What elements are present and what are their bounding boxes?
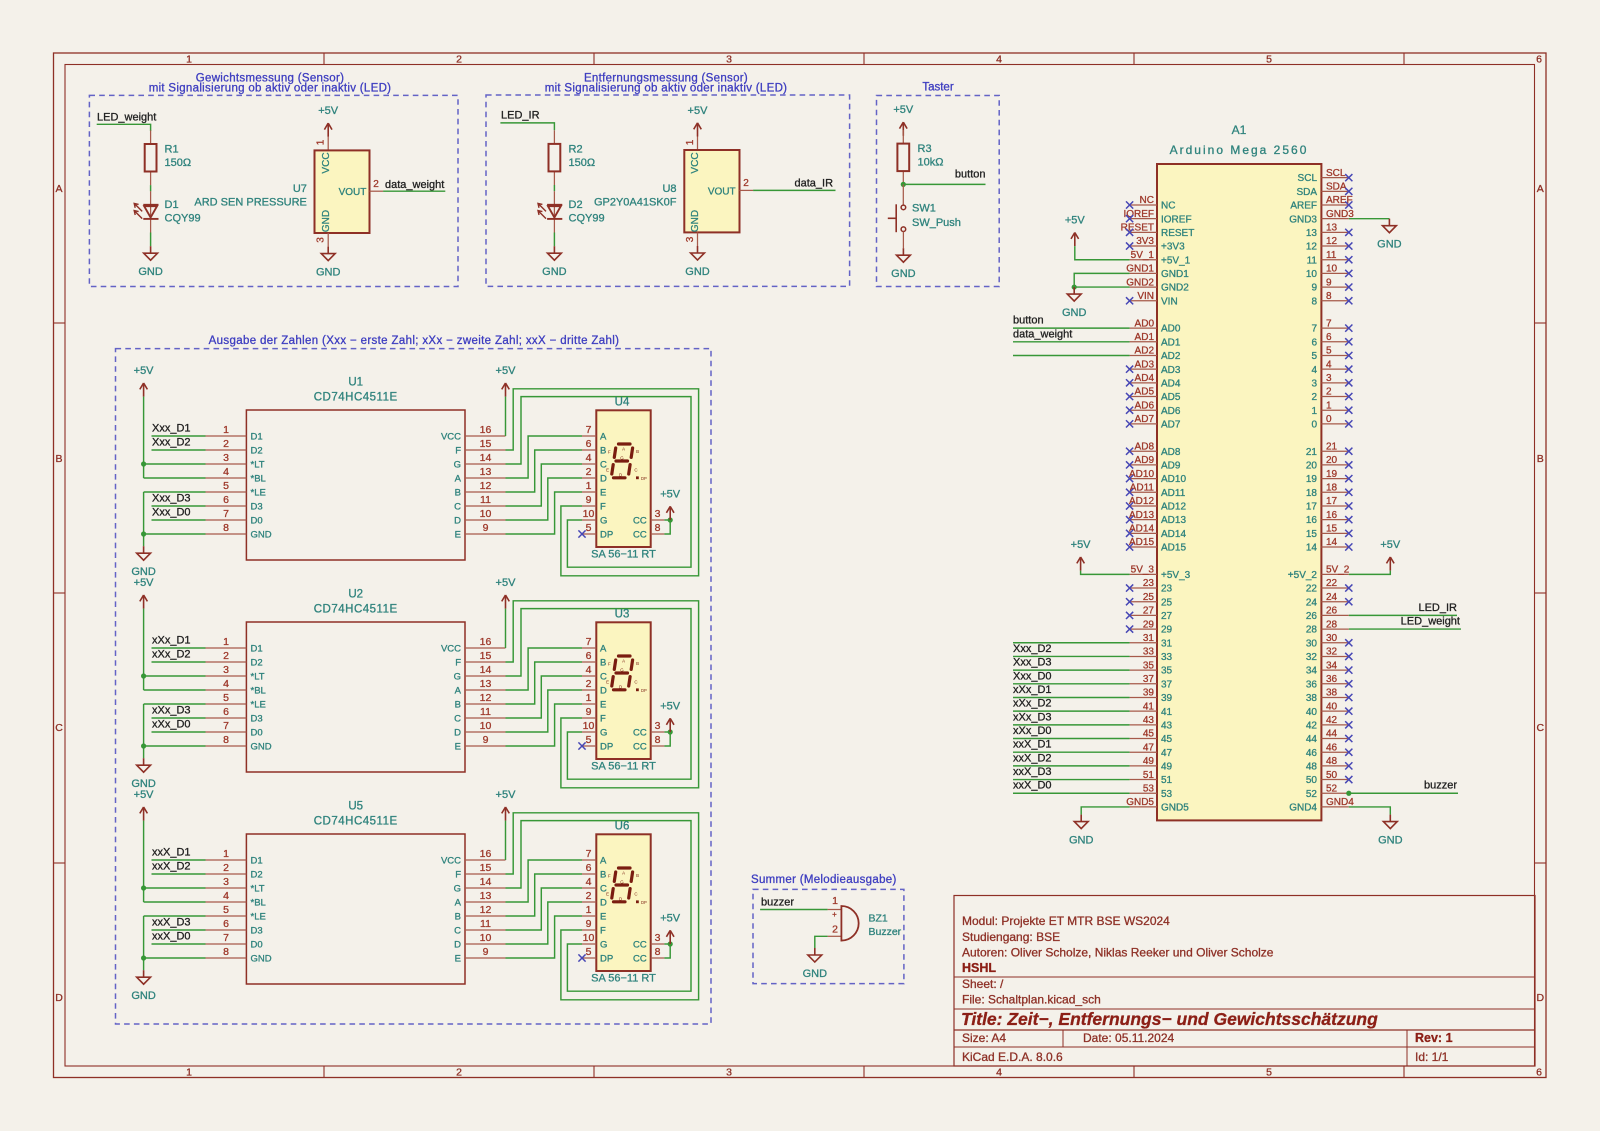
svg-text:G: G (454, 672, 461, 683)
junction (141, 885, 146, 890)
svg-text:19: 19 (1306, 474, 1318, 485)
power +5V (U5 VCC) (496, 789, 517, 821)
svg-text:8: 8 (1326, 291, 1332, 302)
svg-text:CC: CC (633, 728, 647, 739)
wire GND1/GND2 to ground (1074, 273, 1129, 287)
svg-text:C: C (55, 722, 63, 734)
svg-text:U7: U7 (293, 183, 307, 195)
svg-text:5: 5 (223, 904, 229, 916)
svg-text:1: 1 (1326, 400, 1332, 411)
svg-text:xXx_D1: xXx_D1 (1013, 684, 1052, 696)
svg-text:D: D (1537, 992, 1545, 1004)
svg-text:LED_weight: LED_weight (97, 112, 156, 124)
sensor U7 ARD SEN PRESSURE (194, 137, 383, 247)
power +5V (U2 left) (134, 577, 155, 609)
svg-text:DP: DP (641, 688, 647, 693)
junction (141, 955, 146, 960)
wire GND column U5 pins 5,8 (144, 915, 206, 917)
svg-text:data_IR: data_IR (795, 178, 834, 190)
svg-text:5V_3: 5V_3 (1131, 565, 1155, 576)
wire GND column U2 pins 5,8 (144, 703, 206, 705)
power +5V (R3 top) (893, 104, 914, 136)
svg-text:5: 5 (1311, 351, 1317, 362)
svg-text:1: 1 (186, 1067, 192, 1079)
svg-text:6: 6 (223, 494, 229, 506)
svg-text:G: G (620, 880, 624, 885)
svg-text:VCC: VCC (690, 152, 701, 173)
wire +5V to A1 5V_2 (1349, 571, 1391, 575)
wire button to AD0 (1013, 327, 1130, 329)
wire xxX_D1 to A1 (1013, 751, 1130, 753)
svg-text:Studiengang: BSE: Studiengang: BSE (962, 930, 1060, 944)
svg-text:AD9: AD9 (1135, 455, 1155, 466)
ground (box2 LED) (542, 246, 567, 278)
wire GND4 to ground (1349, 807, 1391, 815)
svg-text:GND: GND (316, 267, 341, 279)
svg-text:SCL: SCL (1298, 173, 1318, 184)
no-connect x (U3.5 DP) (578, 742, 585, 749)
svg-text:15: 15 (480, 438, 492, 450)
junction (R3 / button / SW1) (901, 182, 906, 187)
svg-text:+5V: +5V (318, 105, 339, 117)
svg-text:45: 45 (1143, 729, 1155, 740)
svg-text:10: 10 (480, 720, 492, 732)
svg-text:B: B (600, 658, 606, 669)
wire button (Taster) (903, 183, 985, 185)
svg-text:1: 1 (186, 54, 192, 66)
svg-text:31: 31 (1143, 633, 1155, 644)
svg-text:53: 53 (1143, 783, 1155, 794)
switch SW1 SW_Push (888, 203, 961, 249)
svg-text:IOREF: IOREF (1161, 214, 1192, 225)
svg-text:D: D (454, 940, 461, 951)
display U3 SA 56-11 RT (582, 609, 664, 773)
svg-text:GND5: GND5 (1126, 797, 1154, 808)
svg-text:GND2: GND2 (1161, 283, 1189, 294)
svg-text:U2: U2 (348, 589, 363, 601)
svg-text:GND: GND (251, 530, 272, 541)
svg-text:GND: GND (138, 266, 163, 278)
svg-text:GND: GND (690, 210, 701, 232)
junction (1072, 284, 1077, 289)
wire LED_IR to R2 (500, 123, 554, 130)
svg-text:19: 19 (1326, 469, 1338, 480)
wire Xxx_D3 (152, 505, 206, 507)
svg-text:14: 14 (480, 452, 492, 464)
svg-text:A: A (455, 686, 462, 697)
junction (141, 531, 146, 536)
svg-text:1: 1 (685, 139, 696, 145)
svg-text:11: 11 (1326, 250, 1337, 261)
junction (668, 517, 673, 522)
svg-text:13: 13 (480, 466, 492, 478)
svg-text:B: B (600, 870, 606, 881)
resistor R3 (897, 130, 943, 185)
junction (141, 461, 146, 466)
svg-text:A: A (600, 432, 607, 443)
wire net D: U1.10 to U4.2 (506, 478, 583, 520)
svg-text:5V_1: 5V_1 (1131, 250, 1155, 261)
svg-text:D1: D1 (165, 199, 179, 211)
svg-text:D: D (454, 516, 461, 527)
svg-text:Id: 1/1: Id: 1/1 (1415, 1050, 1449, 1064)
svg-text:2: 2 (743, 178, 749, 189)
svg-text:16: 16 (1306, 515, 1318, 526)
svg-text:AD12: AD12 (1161, 502, 1186, 513)
wire xXx_D1 to A1 (1013, 696, 1130, 698)
svg-text:AD8: AD8 (1135, 441, 1155, 452)
wire net G: U2.14 to U3.10 (506, 609, 692, 780)
resistor R2 (549, 130, 596, 185)
svg-text:GND: GND (1378, 835, 1403, 847)
svg-text:B: B (55, 453, 62, 465)
svg-text:AD3: AD3 (1161, 365, 1181, 376)
svg-text:+5V: +5V (660, 912, 681, 924)
power +5V (A1 +5V_3) (1071, 539, 1092, 571)
svg-text:GP2Y0A41SK0F: GP2Y0A41SK0F (594, 197, 677, 209)
svg-text:Arduino Mega 2560: Arduino Mega 2560 (1170, 143, 1309, 157)
svg-text:xxX_D3: xxX_D3 (1013, 766, 1052, 778)
svg-text:G: G (600, 940, 607, 951)
svg-text:5: 5 (223, 692, 229, 704)
svg-text:14: 14 (1326, 537, 1338, 548)
svg-text:11: 11 (1307, 255, 1318, 266)
note box Gewichtsmessung (Sensor) (89, 73, 458, 287)
svg-text:53: 53 (1161, 789, 1173, 800)
svg-text:G: G (454, 460, 461, 471)
ground (U1 left) (131, 546, 156, 578)
svg-text:GND: GND (251, 954, 272, 965)
svg-text:A: A (600, 644, 607, 655)
svg-text:VIN: VIN (1137, 291, 1154, 302)
svg-text:R1: R1 (165, 144, 179, 156)
svg-text:xxX_D0: xxX_D0 (152, 931, 191, 943)
svg-text:F: F (600, 926, 606, 937)
svg-text:xxX_D0: xxX_D0 (1013, 780, 1052, 792)
svg-text:SW_Push: SW_Push (912, 217, 961, 229)
svg-text:RESET: RESET (1161, 228, 1194, 239)
svg-text:2: 2 (586, 466, 592, 478)
svg-text:10: 10 (480, 932, 492, 944)
svg-text:8: 8 (655, 946, 661, 958)
svg-text:27: 27 (1143, 606, 1155, 617)
svg-text:BZ1: BZ1 (869, 913, 888, 925)
wire Xxx_D0 (152, 519, 206, 521)
svg-text:50: 50 (1306, 775, 1318, 786)
svg-text:E: E (455, 530, 461, 541)
svg-text:2: 2 (223, 650, 229, 662)
svg-text:15: 15 (480, 862, 492, 874)
svg-text:4: 4 (1311, 365, 1317, 376)
sensor U8 GP2Y0A41SK0F (594, 137, 753, 247)
svg-text:+: + (832, 910, 837, 919)
svg-text:D: D (619, 684, 622, 689)
svg-text:30: 30 (1306, 638, 1318, 649)
svg-text:9: 9 (483, 734, 489, 746)
svg-text:*LE: *LE (251, 488, 266, 499)
svg-text:7: 7 (223, 932, 229, 944)
svg-text:*BL: *BL (251, 898, 266, 909)
svg-text:DP: DP (600, 742, 613, 753)
svg-text:+5V: +5V (496, 365, 517, 377)
svg-text:AD9: AD9 (1161, 461, 1181, 472)
svg-text:G: G (620, 456, 624, 461)
svg-text:D: D (600, 898, 607, 909)
svg-text:AD1: AD1 (1161, 337, 1181, 348)
svg-text:AD4: AD4 (1161, 378, 1181, 389)
wire GND5 to ground (1081, 807, 1129, 815)
svg-text:Taster: Taster (922, 82, 953, 94)
svg-text:12: 12 (1326, 236, 1338, 247)
svg-text:AD0: AD0 (1161, 324, 1181, 335)
svg-text:xXx_D1: xXx_D1 (152, 635, 191, 647)
ground (A1 GND1/GND2) (1062, 287, 1087, 319)
svg-text:AD12: AD12 (1129, 496, 1154, 507)
svg-text:11: 11 (480, 706, 491, 718)
svg-text:3: 3 (223, 452, 229, 464)
svg-text:AD14: AD14 (1161, 529, 1186, 540)
svg-text:49: 49 (1143, 756, 1155, 767)
svg-text:9: 9 (483, 946, 489, 958)
svg-text:+5V: +5V (134, 577, 155, 589)
svg-text:D1: D1 (251, 644, 263, 655)
svg-text:9: 9 (586, 494, 592, 506)
svg-text:data_weight: data_weight (1013, 328, 1072, 340)
svg-text:21: 21 (1306, 447, 1318, 458)
U6 seven segment digit (606, 868, 647, 905)
wire xXx_D1 (152, 647, 206, 649)
svg-text:3: 3 (223, 876, 229, 888)
svg-text:Xxx_D0: Xxx_D0 (152, 507, 191, 519)
svg-text:3: 3 (655, 720, 661, 732)
svg-text:10: 10 (583, 720, 595, 732)
svg-text:AD11: AD11 (1161, 488, 1186, 499)
svg-text:14: 14 (480, 876, 492, 888)
svg-text:AD15: AD15 (1161, 543, 1186, 554)
svg-text:E: E (455, 954, 461, 965)
svg-text:42: 42 (1306, 720, 1318, 731)
svg-text:U8: U8 (662, 183, 676, 195)
svg-text:D2: D2 (251, 658, 263, 669)
wire +5V to U2 pins 3,4 (143, 609, 145, 690)
svg-text:GND: GND (1377, 239, 1402, 251)
svg-text:CD74HC4511E: CD74HC4511E (314, 392, 398, 404)
svg-text:*LT: *LT (251, 672, 265, 683)
svg-text:2: 2 (1326, 387, 1332, 398)
svg-text:GND: GND (321, 210, 332, 232)
wire CC pins to +5V (664, 519, 670, 521)
svg-text:D2: D2 (251, 446, 263, 457)
A1 right no-connect x marks (1345, 174, 1352, 783)
frame row labels (55, 183, 1544, 1004)
svg-text:3: 3 (316, 237, 327, 243)
svg-text:*LE: *LE (251, 912, 266, 923)
svg-text:10: 10 (480, 508, 492, 520)
svg-text:U6: U6 (615, 821, 630, 833)
svg-text:5: 5 (1326, 346, 1332, 357)
ground (A1 GND4) (1378, 815, 1403, 847)
MCU A1 Arduino Mega 2560 (1157, 123, 1321, 820)
svg-text:16: 16 (480, 424, 492, 436)
svg-text:5: 5 (1266, 1067, 1272, 1079)
svg-text:LED_IR: LED_IR (1418, 602, 1457, 614)
svg-text:xXx_D2: xXx_D2 (152, 649, 191, 661)
svg-text:51: 51 (1143, 770, 1155, 781)
svg-text:38: 38 (1326, 688, 1338, 699)
A1 right pins (stubs, numbers, names) (1288, 168, 1354, 814)
svg-text:33: 33 (1161, 652, 1173, 663)
junction (668, 941, 673, 946)
svg-text:D2: D2 (251, 870, 263, 881)
svg-text:+5V: +5V (134, 789, 155, 801)
svg-text:B: B (636, 873, 639, 878)
junction (1346, 791, 1351, 796)
ground (U8) (685, 246, 710, 278)
svg-text:2: 2 (456, 54, 462, 66)
svg-text:4: 4 (996, 54, 1002, 66)
svg-text:CC: CC (633, 530, 647, 541)
svg-text:AD7: AD7 (1135, 414, 1155, 425)
svg-text:8: 8 (655, 734, 661, 746)
svg-text:AD14: AD14 (1129, 524, 1154, 535)
svg-text:HSHL: HSHL (962, 961, 996, 975)
svg-text:33: 33 (1143, 647, 1155, 658)
LED D1 (134, 191, 200, 232)
svg-text:D: D (600, 686, 607, 697)
svg-text:15: 15 (480, 650, 492, 662)
svg-text:+5V_3: +5V_3 (1161, 570, 1191, 581)
svg-text:20: 20 (1326, 455, 1338, 466)
svg-text:34: 34 (1326, 660, 1338, 671)
svg-text:G: G (454, 884, 461, 895)
svg-text:KiCad E.D.A. 8.0.6: KiCad E.D.A. 8.0.6 (962, 1050, 1063, 1064)
svg-text:7: 7 (586, 424, 592, 436)
U4 seven segment digit (606, 444, 647, 481)
svg-text:CQY99: CQY99 (569, 213, 605, 225)
wire net D: U2.10 to U3.2 (506, 690, 583, 732)
svg-text:3: 3 (726, 54, 732, 66)
power +5V (U3 CC) (660, 700, 681, 732)
svg-text:16: 16 (1326, 510, 1338, 521)
svg-text:xxX_D1: xxX_D1 (1013, 739, 1052, 751)
svg-text:G: G (600, 728, 607, 739)
power +5V (U2 VCC) (496, 577, 517, 609)
svg-text:xxX_D1: xxX_D1 (152, 847, 191, 859)
svg-text:Xxx_D0: Xxx_D0 (1013, 670, 1052, 682)
wire xXx_D0 (152, 731, 206, 733)
svg-text:File: Schaltplan.kicad_sch: File: Schaltplan.kicad_sch (962, 993, 1101, 1007)
svg-text:R3: R3 (918, 143, 932, 155)
svg-text:15: 15 (1306, 529, 1318, 540)
svg-text:2: 2 (373, 179, 379, 190)
svg-text:B: B (636, 661, 639, 666)
wire net F: U5.15 to U6.9 (506, 813, 699, 1000)
wire R1 to D1 (150, 185, 152, 191)
wire buzzer (1349, 792, 1458, 794)
wire BZ1 pin2 to GND (815, 936, 828, 948)
wire LED_IR (1349, 614, 1457, 616)
svg-text:LED_IR: LED_IR (501, 110, 540, 122)
svg-text:AD10: AD10 (1129, 469, 1154, 480)
svg-text:9: 9 (586, 706, 592, 718)
svg-text:23: 23 (1143, 578, 1155, 589)
svg-text:20: 20 (1306, 461, 1318, 472)
svg-text:+5V_1: +5V_1 (1161, 255, 1191, 266)
power +5V (A1 +5V_2) (1380, 539, 1401, 571)
wire data_weight to AD1 (1013, 341, 1130, 343)
svg-text:4: 4 (223, 678, 229, 690)
svg-text:A: A (455, 898, 462, 909)
svg-text:12: 12 (480, 480, 492, 492)
no-connect x (U6.5 DP) (578, 954, 585, 961)
svg-text:5: 5 (586, 946, 592, 958)
svg-text:10: 10 (583, 932, 595, 944)
svg-text:41: 41 (1143, 701, 1155, 712)
svg-text:7: 7 (1311, 324, 1317, 335)
junction (668, 729, 673, 734)
svg-text:D3: D3 (251, 714, 263, 725)
svg-text:SDA: SDA (1326, 182, 1347, 193)
svg-text:41: 41 (1161, 707, 1173, 718)
A1 left no-connect x marks (1126, 201, 1133, 632)
svg-text:28: 28 (1306, 625, 1318, 636)
svg-text:5: 5 (1266, 54, 1272, 66)
wire Xxx_D0 to A1 (1013, 683, 1130, 685)
svg-text:GND: GND (131, 990, 156, 1002)
svg-text:13: 13 (1306, 228, 1318, 239)
svg-text:A1: A1 (1232, 123, 1247, 137)
svg-text:Date: 05.11.2024: Date: 05.11.2024 (1083, 1031, 1175, 1045)
svg-text:VCC: VCC (441, 644, 461, 655)
svg-text:+5V: +5V (1380, 539, 1401, 551)
svg-text:6: 6 (586, 862, 592, 874)
svg-text:xXx_D3: xXx_D3 (1013, 711, 1052, 723)
frame column labels (186, 54, 1542, 1079)
svg-text:Xxx_D2: Xxx_D2 (152, 437, 191, 449)
svg-text:*LT: *LT (251, 460, 265, 471)
svg-text:+5V: +5V (660, 700, 681, 712)
svg-text:AD3: AD3 (1135, 359, 1155, 370)
svg-text:12: 12 (480, 692, 492, 704)
wire Xxx_D1 (152, 435, 206, 437)
svg-text:+5V: +5V (1065, 215, 1086, 227)
svg-text:11: 11 (480, 494, 491, 506)
svg-text:GND: GND (542, 266, 567, 278)
display U4 SA 56-11 RT (582, 397, 664, 561)
svg-text:10: 10 (1306, 269, 1318, 280)
svg-text:14: 14 (1306, 543, 1318, 554)
svg-text:4: 4 (223, 890, 229, 902)
wire net D: U5.10 to U6.2 (506, 902, 583, 944)
wire net F: U1.15 to U4.9 (506, 389, 699, 576)
wire xXx_D0 to A1 (1013, 738, 1130, 740)
resistor R1 (145, 130, 191, 185)
svg-text:40: 40 (1306, 707, 1318, 718)
IC U1 CD74HC4511E (206, 377, 506, 561)
svg-text:3: 3 (655, 932, 661, 944)
wire net C: U5.11 to U6.4 (506, 888, 583, 930)
wire xXx_D2 to A1 (1013, 710, 1130, 712)
svg-text:D3: D3 (251, 926, 263, 937)
svg-text:Ausgabe der Zahlen (Xxx − erst: Ausgabe der Zahlen (Xxx − erste Zahl; xX… (209, 335, 620, 347)
svg-text:button: button (955, 169, 986, 181)
svg-text:16: 16 (480, 636, 492, 648)
svg-text:C: C (1537, 722, 1545, 734)
svg-text:6: 6 (1536, 1067, 1542, 1079)
svg-text:48: 48 (1326, 756, 1338, 767)
svg-text:A: A (622, 870, 625, 875)
svg-text:CC: CC (633, 940, 647, 951)
